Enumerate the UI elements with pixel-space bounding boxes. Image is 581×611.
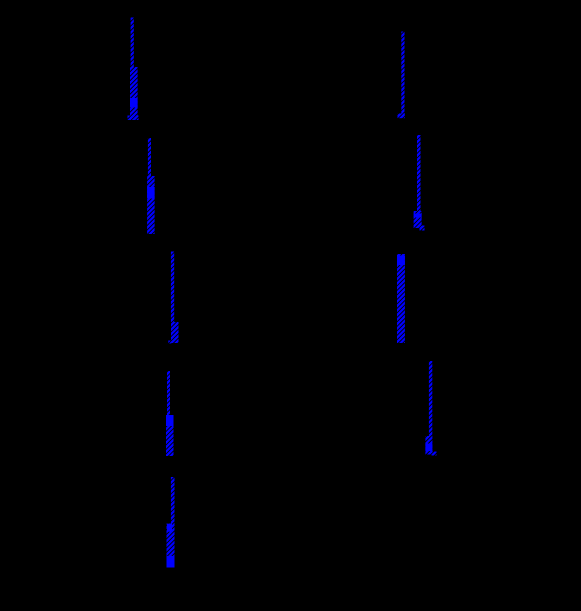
candle 4 body bbox=[166, 415, 174, 456]
candle 6 bottom nub bbox=[398, 114, 405, 119]
candle 8 body bbox=[397, 254, 405, 343]
candle 3 wick bbox=[171, 252, 174, 323]
candle 3 bottom foot bbox=[168, 341, 171, 344]
candle 5 body bbox=[167, 524, 175, 568]
candle 8 body solid patch bbox=[397, 256, 405, 266]
candle 1 body bbox=[130, 67, 138, 120]
candle 3 body bbox=[171, 322, 179, 343]
candle 5 body solid patch lower bbox=[167, 556, 175, 568]
candle 9 body solid patch bbox=[425, 444, 432, 452]
candle 6 wick bbox=[401, 32, 404, 115]
candle 1 bottom foot bbox=[128, 116, 139, 121]
candle 9 wick bbox=[429, 361, 432, 436]
candle 4 body solid patch bbox=[166, 415, 174, 426]
candle 4 wick bbox=[167, 371, 170, 415]
candle 2 wick bbox=[148, 138, 151, 176]
candle 7 body bbox=[414, 211, 422, 228]
candle 7 bottom tail bbox=[420, 226, 425, 231]
candle 7 body solid patch bbox=[414, 214, 422, 218]
candle 5 wick bbox=[171, 477, 175, 524]
candle 1 wick bbox=[131, 18, 134, 68]
candle 2 body solid patch bbox=[147, 187, 155, 199]
candle 9 body bbox=[425, 436, 432, 455]
candle 7 wick bbox=[417, 135, 421, 211]
candle 2 body bbox=[147, 176, 155, 234]
candle 5 body solid patch upper bbox=[167, 524, 172, 532]
candle 1 body solid patch bbox=[130, 98, 138, 108]
candle 9 bottom tail bbox=[432, 452, 437, 456]
